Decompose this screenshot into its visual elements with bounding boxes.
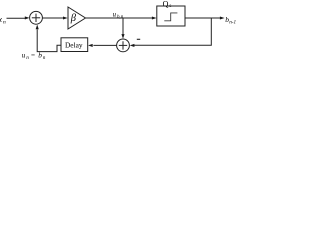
svg-text:β: β bbox=[70, 13, 77, 24]
svg-text:Q: Q bbox=[163, 0, 169, 8]
svg-text:=: = bbox=[31, 51, 35, 59]
svg-text:b: b bbox=[38, 51, 42, 60]
svg-text:n-1: n-1 bbox=[229, 20, 236, 26]
svg-text:n: n bbox=[43, 55, 46, 61]
svg-text:s: s bbox=[170, 4, 172, 9]
svg-text:u: u bbox=[22, 52, 26, 60]
svg-text:u: u bbox=[113, 12, 117, 19]
svg-text:Delay: Delay bbox=[65, 40, 83, 49]
svg-text:n: n bbox=[26, 55, 29, 61]
svg-text:n: n bbox=[3, 19, 6, 25]
svg-text:b,n: b,n bbox=[117, 15, 124, 20]
